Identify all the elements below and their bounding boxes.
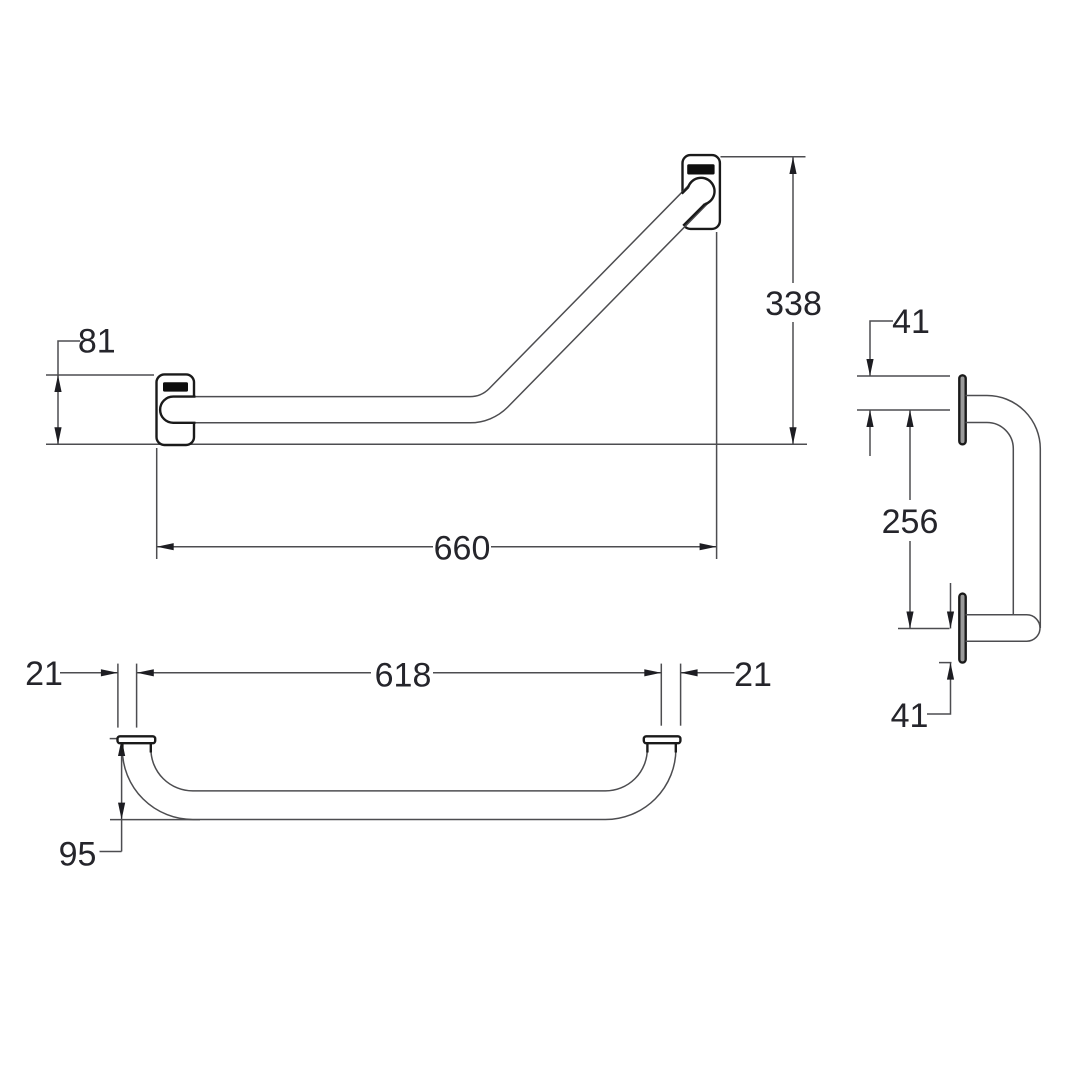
left wall flange (front view) [157,374,195,445]
svg-text:21: 21 [25,655,63,693]
dimension 95 arrow up (over tube, under plate) [118,739,125,756]
dimension 41 top arrow down [866,359,873,376]
plan view tube outline [137,742,662,805]
plan view left flange plate [118,736,156,743]
svg-text:256: 256 [882,503,939,541]
dimension 338 line [792,157,794,283]
dimension 21 left arrow [101,669,118,676]
front view extension line right vertical (660 dim) [716,232,718,559]
svg-text:41: 41 [891,697,929,735]
dimension 21 left line [60,672,118,674]
dimension 41 top arrow up [869,410,871,456]
grab bar tube (front view) core [173,192,701,410]
svg-text:95: 95 [59,836,97,874]
dimension 41 bottom leader [927,663,951,714]
dimension 21 right line [681,672,735,674]
svg-text:338: 338 [765,285,822,323]
front view extension line top (81 dim, wall face) [46,374,154,376]
dimension 660 arrow left [157,543,174,550]
top wall flange (front view) [683,155,720,229]
side view extension tick flange bottom (41) [939,662,952,664]
top tube mounting circle fill [688,178,715,205]
plan view extension tick wall face (95) [110,738,117,740]
left tube end cap [160,397,195,423]
dimension 81 arrow down [54,427,61,444]
dimension 338 arrow up [789,157,796,174]
side view top wall flange [959,375,965,444]
dimension 256 line [909,410,911,500]
dimension 618 arrow right [644,669,661,676]
plan view extension line bottom (95) [110,819,200,821]
side view bottom wall flange [959,594,965,663]
top flange slot [687,164,714,174]
side view tube inner edge [966,423,1014,615]
top tube dark edge upper [682,187,689,194]
dimension 95 arrow down [118,803,125,820]
svg-text:41: 41 [892,303,930,341]
grab bar tube (front view) outline [173,192,701,410]
dimension 256 arrow up [906,410,913,427]
dimension 618 arrow left [137,669,154,676]
front view extension line left vertical (660 dim) [156,448,158,559]
svg-text:618: 618 [375,656,432,694]
front view extension line from top flange (338 dim) [721,156,806,158]
left flange slot [163,382,188,391]
side view bottom run top edge and end cap [966,615,1041,641]
plan view right flange neck ticks [646,744,648,753]
dimension 618 line [137,672,371,674]
dimension 41 bottom arrow down [950,583,952,629]
dimension 95 line [121,739,123,852]
front view extension line bottom (long, 81/338 dims) [46,443,807,445]
top tube dark edge lower [683,204,705,226]
top tube mounting circle arc [688,178,714,205]
plan view extension line right center (618/21) [660,664,662,726]
plan view left flange neck ticks [121,744,123,753]
plan view tube core [137,742,662,805]
side view extension line tube center (41/256) [857,409,950,411]
plan view right flange plate [644,736,681,743]
dimension 95 leader [100,851,122,853]
dimension 41 top leader [870,321,893,376]
dimension 256 arrow down [906,612,913,629]
dimension 81 arrow up [54,375,61,392]
svg-text:660: 660 [434,530,491,568]
side view tube outer edge [966,396,1041,629]
plan view extension line right outer (21) [680,664,682,726]
side view extension line bottom tube center (256/41) [898,628,950,630]
plan view extension line left outer (21) [117,664,119,728]
plan view extension line left center (21/618) [136,664,138,728]
svg-text:81: 81 [78,323,116,361]
dimension 660 arrow right [700,543,717,550]
dimension 81 leader [58,341,80,444]
dimension 338 arrow down [789,427,796,444]
dimension 41 bottom arrow up [947,663,954,680]
side view extension line flange top (41) [857,375,950,377]
dimension 21 right arrow [681,669,698,676]
dimension 660 line [157,546,433,548]
svg-text:21: 21 [734,656,772,694]
